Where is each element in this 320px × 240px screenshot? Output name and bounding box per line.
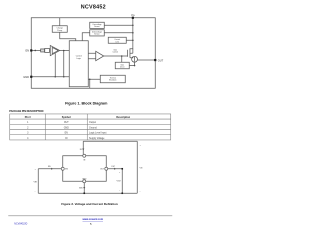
wire buffer to control logic (60, 50, 70, 52)
resistor R1 (41, 49, 45, 52)
pin EN left (61, 167, 64, 170)
wire driver to gate wire (121, 56, 123, 62)
svg-text:Ground: Ground (89, 126, 97, 129)
node EN out dot (63, 50, 65, 52)
wire driver to out node (129, 62, 134, 65)
junction squares figure 2 (83, 168, 123, 194)
comparator U4 (96, 51, 104, 61)
svg-text:VEN: VEN (33, 182, 36, 184)
node rail dot a (54, 76, 56, 78)
pin OUT right (105, 167, 108, 170)
current arrows figure 2 (51, 149, 116, 190)
wire pulldown b (63, 51, 65, 77)
wire sense to OUT pin (137, 59, 155, 61)
transistor Q1 power MOSFET (130, 48, 133, 51)
svg-text:Figure 2. Voltage and Current: Figure 2. Voltage and Current Definition (61, 202, 118, 206)
wire uv sensor to VIN line (104, 32, 133, 34)
node vin dot 3 (132, 39, 134, 41)
svg-text:Pin #: Pin # (25, 116, 32, 119)
svg-text:Logic Level Input: Logic Level Input (89, 132, 107, 135)
svg-text:EN: EN (25, 48, 29, 52)
svg-text:NCV8452/D: NCV8452/D (14, 223, 27, 225)
pin EN (30, 49, 32, 51)
svg-text:Limit: Limit (115, 40, 119, 43)
svg-text:EN: EN (65, 133, 69, 135)
svg-text:OUT: OUT (64, 122, 69, 124)
table frame (10, 114, 171, 140)
wire VOUT drop (121, 169, 123, 194)
wire EN left (38, 168, 61, 170)
IC outline (31, 18, 155, 89)
box overvoltage sensor (90, 22, 105, 28)
wire control logic to comparator + (88, 52, 96, 54)
svg-text:Shutdown: Shutdown (109, 79, 117, 82)
svg-text:Logic: Logic (76, 58, 81, 60)
charge pump box U2 (52, 26, 67, 33)
svg-text:Figure 1. Block Diagram: Figure 1. Block Diagram (65, 102, 108, 106)
wire top border to charge pump (59, 18, 61, 26)
arrow IGND (83, 187, 85, 189)
wire current limit to VIN line (126, 39, 133, 41)
labels figure 1 (23, 13, 163, 79)
wire control logic to thermal box (88, 78, 100, 80)
DUT pin names (65, 159, 105, 180)
svg-text:GND: GND (64, 127, 69, 129)
svg-text:IEN: IEN (48, 166, 51, 168)
pin OUT (154, 59, 156, 61)
wire GND drop (83, 183, 85, 193)
DUT box (63, 156, 107, 182)
wire OUT right (108, 168, 122, 170)
junction dots figure 1 (34, 24, 135, 80)
box undervoltage sensor (90, 30, 105, 36)
svg-text:IGND: IGND (79, 188, 83, 190)
svg-text:Sensor: Sensor (94, 25, 100, 28)
driver box U5 (115, 62, 129, 69)
control logic box U1 (69, 41, 88, 87)
svg-text:IOUT: IOUT (111, 166, 115, 168)
node thermal dot (89, 78, 91, 80)
node VOUT top (121, 168, 123, 170)
labels figure 2 (33, 145, 142, 193)
svg-text:Description: Description (116, 116, 130, 119)
pin IN top (83, 154, 86, 157)
svg-text:Control: Control (113, 50, 119, 53)
svg-text:VIN: VIN (140, 168, 143, 170)
wire ov sensor to VIN line (104, 24, 133, 26)
node EN dot (34, 50, 36, 52)
svg-text:GND: GND (82, 179, 87, 181)
svg-text:Symbol: Symbol (62, 116, 71, 119)
svg-text:Driver: Driver (120, 66, 125, 69)
node out dot (134, 65, 136, 67)
svg-text:IIN: IIN (80, 149, 82, 151)
svg-text:Output: Output (89, 121, 96, 124)
svg-text:www.onsemi.com: www.onsemi.com (83, 218, 104, 221)
node GND rail (83, 192, 85, 194)
pins figure 1 (30, 17, 156, 78)
node vin dot 1 (132, 24, 134, 26)
pin GND bottom (83, 180, 86, 183)
wire charge pump to control logic (60, 32, 76, 41)
wire pulldown a (54, 53, 56, 77)
wire bottom rail (38, 192, 137, 194)
wire comparator to gate (104, 55, 128, 57)
arrow IOUT (114, 168, 116, 170)
arrow IEN (51, 168, 53, 170)
wire junction to bottom border (89, 79, 91, 88)
wire VEN source (37, 169, 39, 194)
svg-text:Supply Voltage: Supply Voltage (89, 137, 105, 140)
svg-text:Pump: Pump (57, 30, 62, 32)
pin GND (30, 76, 32, 78)
wire UVLO to control logic (82, 33, 90, 41)
svg-text:Sensor: Sensor (94, 33, 100, 36)
svg-text:VOUT: VOUT (116, 180, 120, 182)
svg-text:GND: GND (23, 75, 29, 79)
svg-text:IN: IN (65, 138, 68, 140)
arrow IIN (82, 149, 84, 151)
footer rule (8, 215, 172, 217)
wire GND rail (31, 76, 69, 78)
node vin dot 2 (132, 32, 134, 34)
wire VIN source (136, 141, 138, 193)
svg-text:NCV8452: NCV8452 (81, 4, 106, 10)
node VOUT rail (121, 192, 123, 194)
resistor R2 (45, 48, 50, 52)
pin circles DUT (61, 154, 108, 183)
schmitt buffer U3 (50, 45, 60, 55)
node rail dot b (63, 76, 65, 78)
thermal shutdown box U6 (100, 75, 125, 83)
pin VIN (132, 17, 134, 19)
svg-text:PACKAGE PIN DESCRIPTION: PACKAGE PIN DESCRIPTION (9, 110, 43, 113)
wire IN drop (82, 141, 84, 154)
wire VIN line (132, 18, 134, 50)
current sense CS1 (132, 56, 138, 62)
svg-text:OUT: OUT (158, 58, 164, 62)
wire top rail (83, 140, 137, 142)
node gate dot (121, 55, 123, 57)
wire control logic to comparator - (88, 58, 96, 60)
wire EN pin to resistor (31, 49, 40, 51)
box current limit (108, 37, 126, 43)
